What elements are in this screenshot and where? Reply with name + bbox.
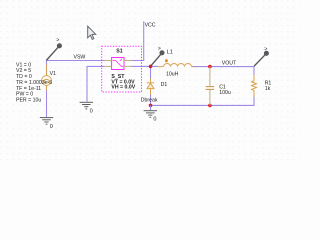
diode D1 (147, 78, 154, 94)
svg-text:VH = 0.0V: VH = 0.0V (111, 85, 135, 91)
wire VCC net vertical to switch pin (131, 21, 143, 60)
node junction C1 bottom (208, 104, 212, 108)
svg-text:S1: S1 (116, 49, 122, 55)
svg-text:VOUT: VOUT (222, 60, 237, 66)
L1 pin-1 dot (165, 59, 168, 62)
svg-text:V1: V1 (50, 71, 56, 77)
probe marker on VOUT (254, 51, 269, 66)
node junction D1/ground rail (149, 104, 153, 108)
voltage source V1 (42, 65, 52, 91)
svg-text:0: 0 (153, 116, 156, 122)
svg-text:VSW: VSW (74, 54, 86, 60)
wire switch output to node / L1 (131, 65, 157, 67)
ground below switch control (80, 102, 93, 109)
svg-text:PER = 10u: PER = 10u (16, 98, 41, 104)
svg-text:>: > (158, 46, 161, 52)
mouse cursor (88, 26, 96, 39)
ground below D1 (144, 105, 157, 117)
svg-text:0: 0 (50, 124, 53, 130)
wire D1 node vertical top segment (150, 66, 152, 78)
capacitor C1 (209, 67, 211, 106)
svg-text:L1: L1 (167, 50, 173, 56)
node junction VOUT/C1 top (208, 65, 212, 69)
svg-text:VCC: VCC (145, 23, 156, 29)
ground below V1 (40, 118, 53, 125)
node junction at switch output (149, 65, 153, 69)
probe marker on switch node (151, 50, 165, 66)
V1 parameter text block (16, 62, 52, 103)
wire L1 right to VOUT corner and down to R1 (192, 67, 255, 75)
svg-text:10uH: 10uH (166, 72, 179, 78)
resistor R1 (252, 75, 257, 97)
svg-text:Dbreak: Dbreak (141, 97, 158, 103)
switch S1 body (112, 58, 124, 70)
svg-text:0: 0 (90, 109, 93, 115)
inductor L1 (158, 64, 194, 67)
svg-text:100u: 100u (219, 90, 231, 96)
svg-text:>: > (56, 38, 59, 44)
switch pin stubs (104, 61, 132, 67)
wire VSW net: V1 top to switch control+ (47, 61, 105, 76)
svg-text:1k: 1k (265, 86, 271, 92)
probe marker on VSW (46, 43, 62, 60)
wire R1 bottom to ground rail (151, 96, 255, 105)
svg-text:>: > (264, 46, 267, 52)
svg-text:D1: D1 (161, 82, 168, 88)
switch S1 dashed selection box (102, 46, 142, 92)
wire switch control- to ground riser (87, 66, 104, 101)
wire D1 bottom segment (150, 95, 152, 106)
wire V1 bottom to ground (46, 86, 48, 118)
